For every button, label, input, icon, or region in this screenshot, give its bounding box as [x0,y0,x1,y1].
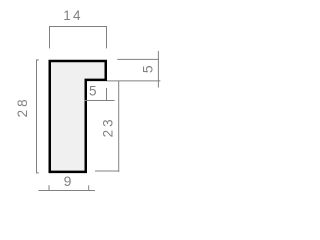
svg-text:14: 14 [63,8,82,23]
dimension 28: dimension line [36,60,38,173]
dimension 5 (rebate width): dimension line [84,100,114,102]
svg-text:28: 28 [15,96,30,117]
dimension 9: left tick [48,185,50,191]
svg-text:23: 23 [101,116,116,137]
dimension 23: dimension line [118,81,120,172]
dimension 14: left extension drop [49,27,51,49]
dimension 14: right extension drop [106,27,108,49]
dimension 5 (rebate width): right tick [106,88,108,101]
dimension 9: dimension line [39,190,96,192]
svg-text:5: 5 [89,84,98,99]
dimension 28: bottom end stub [36,172,39,174]
svg-text:5: 5 [139,64,155,73]
dimension 5 (lip height): dimension line [157,51,159,88]
dimension 5 (lip height): bottom extension line [107,80,160,82]
dimension 23: bottom extension line [95,170,119,172]
svg-text:9: 9 [64,173,73,189]
dimension 5 (lip height): top extension line [117,58,159,60]
moulding profile cross-section [50,61,106,172]
dimension 28: top end stub [36,59,39,61]
dimension 14: dimension line [49,26,107,28]
dimension 9: right tick [88,185,90,191]
